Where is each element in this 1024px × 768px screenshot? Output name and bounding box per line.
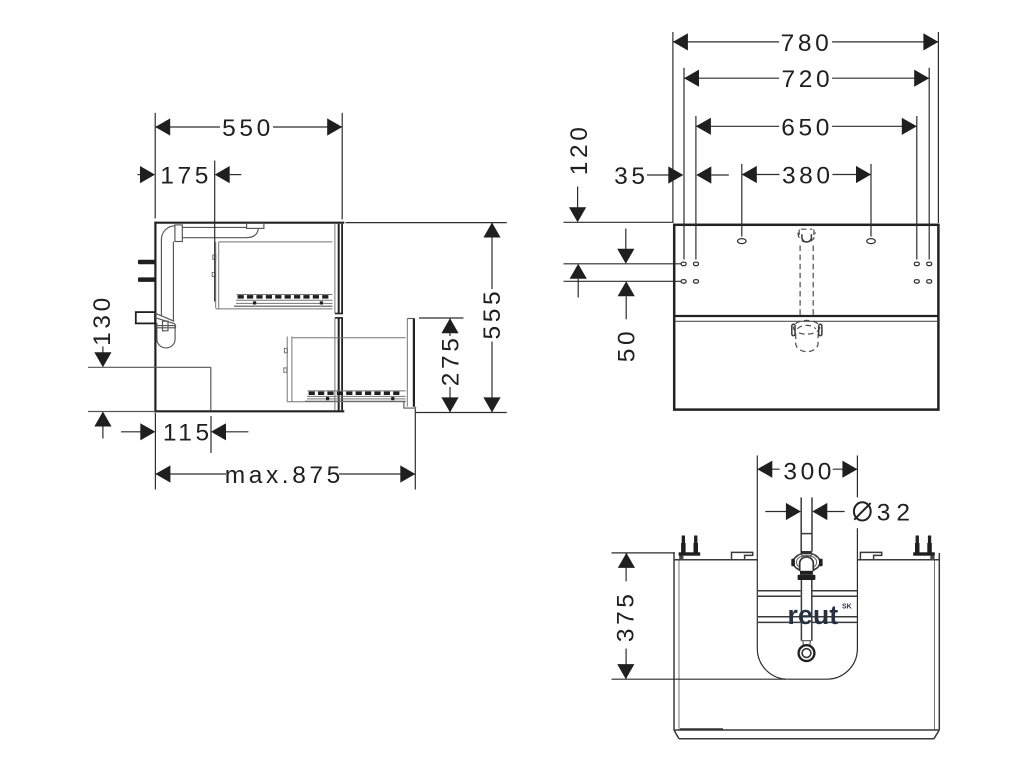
pulled-out drawer front foot [404, 402, 416, 408]
lower closed front panel outer lines [338, 318, 340, 411]
drain cup dashed rim [801, 228, 812, 230]
siphon diagonal connector lower line [155, 318, 175, 324]
dim 175 leader left [138, 174, 142, 176]
drain cup inner U [802, 234, 812, 242]
pulled-out drawer front outer line [413, 318, 415, 407]
upper drawer rail stops [253, 301, 256, 304]
cabinet top edge [156, 222, 344, 224]
cabinet outline [674, 225, 938, 410]
lower drawer back panel clips [284, 348, 287, 352]
drain pipe horizontal top line [182, 226, 246, 228]
svg-text:35: 35 [614, 163, 648, 190]
mounting slot row2 col1 [681, 280, 686, 283]
dim 780 extension right [937, 32, 939, 223]
svg-text:275: 275 [437, 335, 464, 387]
upper drawer slide rail dashes [238, 295, 329, 299]
dim 35 arrow (outside pointing right at 720 line) [668, 166, 683, 183]
wall anchor bolt lower [138, 277, 155, 282]
siphon flange tab left [792, 324, 795, 335]
pulled-out drawer front top cap [407, 318, 415, 320]
dim 555 arrow up [483, 223, 500, 238]
mounting slot row2 col2 [694, 280, 699, 283]
siphon diagonal connector upper line [155, 313, 174, 321]
right outer edge [938, 553, 940, 730]
lower drawer rail lines [308, 390, 406, 392]
tap hole oval left [738, 239, 747, 244]
siphon clamp tab left [791, 559, 795, 566]
dim 300 arrows [757, 461, 772, 478]
drain pipe lower walls [800, 580, 802, 641]
drain pipe vertical left line [160, 240, 162, 316]
fixing tab right [860, 552, 881, 559]
lower closed front panel inner face [334, 318, 336, 411]
ref line slot row1 extended left [564, 263, 682, 265]
svg-text:reut: reut [788, 600, 839, 630]
dim 780 arrows [673, 33, 688, 50]
divider thick line (bottom of upper section) [676, 315, 938, 317]
drain cup dashed sides [799, 230, 814, 237]
siphon dip tube [163, 321, 169, 331]
drain outlet ring inner [802, 649, 811, 658]
svg-text:780: 780 [781, 30, 833, 57]
wall anchor bolt upper [138, 260, 155, 265]
top edge right segment [857, 559, 938, 561]
lower drawer slide rail dashes [309, 392, 400, 396]
dim Ø32 leader left [765, 511, 786, 513]
hinge mark under plate left [679, 556, 683, 560]
dim 175 extension line [214, 161, 216, 302]
dim 115 arrow left (outside pointing right) [140, 423, 155, 440]
siphon flange inner ellipse [797, 555, 817, 569]
dim 120 arrow up (tip at slot row1, outside below) [570, 264, 587, 279]
siphon arch outline [800, 557, 814, 571]
dim 130 text (rotated) [89, 294, 116, 346]
siphon clamp band upper [800, 571, 813, 575]
svg-text:380: 380 [782, 163, 834, 190]
dim 380 extension right [870, 164, 872, 237]
dim 375 extension bottom [612, 678, 787, 680]
dim 130 arrow up (tip at cabinet bottom, outside) [94, 412, 111, 427]
dim Ø32 arrow (outside pointing right) [786, 503, 801, 520]
bottom bevel left diagonal [674, 730, 679, 739]
drain outlet neck [803, 641, 811, 646]
dim 555 extension line top [346, 222, 507, 224]
svg-text:50: 50 [614, 328, 641, 362]
dim 35 leader left [647, 174, 669, 176]
dim 375 arrow up [618, 553, 635, 568]
upper drawer back panel [215, 242, 217, 309]
dim 275 text (rotated) [437, 335, 464, 387]
bottom bevel bottom line [679, 738, 934, 740]
dim Ø32 arrow (outside pointing left) [812, 503, 827, 520]
cabinet bottom edge [156, 410, 344, 412]
dim 650 line [696, 125, 779, 127]
dim max.875 arrow right [400, 465, 415, 482]
bottom dark segment [680, 728, 723, 730]
cabinet left wall [154, 223, 156, 412]
dim 720 extension left [683, 68, 685, 260]
dim 375 line lower [625, 649, 627, 680]
drain pipe dashed left wall [799, 246, 801, 316]
dim 380 arrows [742, 166, 757, 183]
drain pipe upper walls [800, 497, 802, 551]
svg-text:max.875: max.875 [225, 462, 344, 489]
service notch vertical step [210, 367, 212, 410]
dim 175 leader right [230, 174, 242, 176]
drain pipe horizontal bottom line with up-elbow [182, 229, 258, 238]
svg-text:650: 650 [781, 114, 833, 141]
ref line slot row2 extended left [564, 280, 682, 282]
upper drawer back panel clips [213, 255, 216, 259]
svg-text:555: 555 [479, 288, 506, 340]
dim Ø32 symbol [854, 502, 871, 520]
svg-text:32: 32 [877, 500, 916, 527]
lower drawer top edge [292, 337, 406, 339]
dim 50 tail below [625, 296, 627, 319]
tap hole oval right [867, 239, 876, 244]
dim 275 arrow up [441, 318, 458, 333]
dim 555 text (rotated) [479, 288, 506, 340]
mounting slot row1 col3 [914, 262, 919, 265]
dim 550 arrow left [155, 118, 170, 135]
dim 115 arrow right (outside pointing left) [211, 423, 226, 440]
dim 35 arrow (outside pointing left at 650 line) [696, 166, 711, 183]
upper drawer front panel outer lines [338, 224, 340, 314]
dim 650 extension left [695, 116, 697, 260]
pulled-out drawer front inner face [406, 319, 408, 407]
mounting slot row2 col3 [914, 280, 919, 283]
dim 375 line upper [625, 553, 627, 581]
dim 275 line [449, 318, 451, 336]
dim 550 arrow right [327, 118, 342, 135]
dim 650 extension right [916, 116, 918, 260]
upper drawer rail lines [237, 294, 333, 296]
upper drawer front panel inner face [334, 224, 336, 313]
fixing tab left [732, 552, 753, 559]
svg-text:115: 115 [163, 420, 213, 447]
dim 375 arrow down [617, 664, 634, 679]
bottom edge thin extension to left [88, 411, 155, 413]
right inner edge [934, 560, 936, 730]
siphon flange outer ellipse [793, 553, 820, 571]
svg-text:720: 720 [782, 66, 834, 93]
upper front panel bottom cap [335, 313, 343, 315]
drain pipe dark collar [801, 551, 812, 554]
basin drain fitting under cabinet top [247, 223, 264, 228]
mounting pin left A [682, 536, 685, 544]
mounting pin plate left [679, 552, 701, 555]
dim 780 extension left [672, 32, 674, 223]
dim 130 tail below [102, 427, 104, 439]
dim 720 line [684, 77, 779, 79]
drain pipe joint crossbar [801, 533, 812, 535]
dim 120 arrow down (tip at top edge) [569, 207, 586, 222]
siphon clamp band lower [798, 575, 816, 580]
dim 375 extension top [612, 552, 676, 554]
lower front panel top cap [335, 317, 343, 319]
dim 780 line [673, 41, 779, 43]
dim 50 arrow down (tip at slot row1, outside above) [617, 249, 634, 264]
svg-text:300: 300 [783, 458, 835, 485]
dim 380 extension left [741, 164, 743, 237]
dim 50 text (rotated) [614, 328, 641, 362]
dim 720 extension right [928, 68, 930, 260]
drain pipe dashed right wall [812, 246, 814, 316]
siphon flange inner dashed arc [798, 325, 816, 329]
dim 375 text (rotated) [612, 590, 639, 642]
U cutout right side and corner [856, 456, 858, 498]
cross rail 1 lines [757, 590, 800, 592]
dim 550 line [155, 126, 220, 128]
siphon trap dashed U [796, 334, 818, 352]
drain pipe elbow outer curve [161, 226, 175, 240]
mounting slot row1 col2 [694, 262, 699, 265]
dim max.875 arrow left [155, 465, 170, 482]
mounting slot row2 col4 [927, 280, 932, 283]
dim 35 leader right [711, 174, 729, 176]
dim max.875 line [155, 473, 226, 475]
drain pipe vertical right line [172, 242, 174, 322]
ref line top edge extended left [564, 221, 674, 223]
dim 130 arrow down (tip at notch floor) [94, 352, 111, 367]
dim 115 leader left [121, 431, 141, 433]
mounting slot row1 col1 [681, 262, 686, 265]
hinge mark under plate right [930, 556, 934, 560]
dim Ø32 leader right [827, 511, 844, 513]
cross rail 2 lines [757, 616, 800, 618]
svg-text:375: 375 [612, 590, 639, 642]
dim 555 extension line bottom [416, 412, 507, 414]
U cutout bottom [788, 678, 827, 680]
U cutout left side and corner [757, 456, 788, 680]
mounting pin left B [694, 536, 697, 544]
dim 115 extension line right [210, 416, 212, 453]
wall outlet box [136, 312, 155, 323]
svg-text:550: 550 [222, 115, 274, 142]
lower drawer bottom line [287, 401, 405, 403]
svg-text:120: 120 [566, 124, 593, 176]
dim max.875 extension line left [154, 413, 156, 490]
left outer edge [673, 553, 675, 730]
mounting pin right B [928, 536, 931, 544]
siphon flange tab right [819, 324, 822, 335]
dim 130 line upper segment [102, 347, 104, 354]
drain cup dashed bowl [798, 233, 815, 243]
mounting pin plate right [913, 552, 935, 555]
drain outlet ring outer [799, 645, 815, 661]
dim 120 tail below [577, 279, 579, 298]
svg-text:SK: SK [842, 604, 852, 611]
siphon trap nut band [157, 326, 176, 328]
left inner edge [678, 560, 680, 730]
mounting slot row1 col4 [927, 262, 932, 265]
svg-text:175: 175 [160, 163, 212, 190]
dim 555 arrow down [483, 397, 500, 412]
divider thin line (top of drawer front) [676, 320, 938, 322]
drain pipe wall flange [175, 225, 182, 242]
dim 175 arrow left (outside pointing right) [140, 166, 155, 183]
lower drawer back panel [286, 337, 288, 402]
dim max.875 extension line right [414, 409, 416, 490]
dim 650 arrows [696, 118, 711, 135]
top edge left segment [675, 559, 758, 561]
siphon trap cup [157, 323, 175, 348]
service notch floor line (extends left as 130 reference) [88, 366, 211, 368]
dim 50 arrow up (tip at slot row2, outside below) [618, 281, 635, 296]
dim 175 arrow right (outside pointing left) [215, 166, 230, 183]
siphon clamp tab right [819, 559, 823, 566]
dim 120 text (rotated) [566, 124, 593, 176]
dim 720 arrows [684, 70, 699, 87]
dim 275 arrow down [441, 397, 458, 412]
dim 555 line [491, 223, 493, 290]
dim 115 leader right [226, 431, 248, 433]
bottom bevel top line [674, 729, 939, 731]
dim 380 line [742, 174, 780, 176]
dim 550 extension line left [154, 113, 156, 219]
siphon flange scallop marks [795, 554, 819, 559]
svg-text:130: 130 [89, 294, 116, 346]
dim 50 tail above [625, 229, 627, 250]
dim 275 leader top [419, 317, 464, 319]
bottom bevel right diagonal [934, 730, 939, 739]
lower drawer rail stops [326, 397, 329, 400]
mounting pin right A [916, 536, 919, 544]
dim 120 line upper segment [577, 187, 579, 210]
siphon flange dashed ellipse [793, 320, 819, 334]
upper drawer top edge [219, 241, 333, 243]
dim 300 line [757, 468, 779, 470]
dim 550 extension line right [341, 113, 343, 220]
